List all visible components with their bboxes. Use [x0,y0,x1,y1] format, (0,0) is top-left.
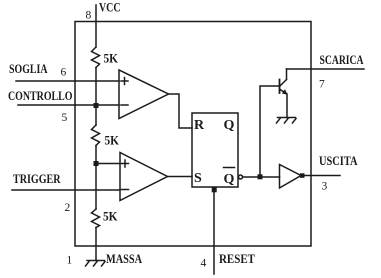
op-amp comparator U1 [119,70,169,119]
IC package boundary box [75,22,311,247]
junction node divider to comparator2 plus [94,161,99,166]
svg-text:8: 8 [86,10,92,22]
svg-text:SOGLIA: SOGLIA [9,62,48,76]
svg-text:5: 5 [62,112,68,124]
svg-text:SCARICA: SCARICA [320,53,364,67]
svg-text:MASSA: MASSA [106,252,142,266]
op-amp comparator U2 [120,153,168,201]
svg-text:4: 4 [201,258,207,270]
svg-text:USCITA: USCITA [319,154,358,168]
wire SOGLIA pin 6 to comparator1 plus input [16,80,119,82]
svg-text:S: S [194,171,202,186]
svg-text:7: 7 [319,79,325,91]
wire CONTROLLO pin 5 to comparator1 minus input [18,104,119,106]
wire R1 to R2 [95,68,97,126]
wire comparator1 output to flip-flop R input [169,94,193,128]
wire R2 to R3 [95,146,97,210]
svg-text:6: 6 [61,67,67,79]
junction node flip-flop reset [212,187,217,192]
svg-text:5K: 5K [103,210,118,224]
wire TRIGGER pin 2 to comparator2 minus input [12,189,120,191]
svg-text:VCC: VCC [99,1,121,15]
svg-text:Q: Q [224,118,235,133]
svg-text:3: 3 [322,181,328,193]
wire RESET pin 4 vertical [213,189,215,274]
resistor R2 5K zigzag [92,125,100,146]
svg-text:5K: 5K [104,52,119,66]
svg-text:1: 1 [67,255,73,267]
svg-text:CONTROLLO: CONTROLLO [8,89,73,103]
flip-flop U3 box [192,113,238,187]
ground symbol transistor emitter [277,118,297,124]
wire junction up to transistor base [260,86,280,177]
svg-text:RESET: RESET [219,252,256,266]
Q-bar output bubble [239,175,243,179]
svg-text:Q: Q [224,172,235,187]
resistor R3 5K zigzag [92,209,100,228]
svg-text:2: 2 [65,202,71,214]
wire divider node to comparator2 plus input [96,163,120,165]
flip-flop pin label Q-bar [224,168,235,188]
svg-text:R: R [194,118,205,133]
wire USCITA pin 3 output line [304,175,340,177]
resistor R1 5K zigzag [92,47,100,68]
transistor Q1 discharge [280,69,288,118]
svg-text:5K: 5K [105,134,120,148]
junction node inverter output [300,173,305,178]
wire R3 to ground [95,228,97,261]
ground symbol MASSA [86,261,106,267]
svg-text:TRIGGER: TRIGGER [13,172,61,186]
junction node CONTROLLO to divider [94,103,99,108]
inverter output buffer U4 [280,165,302,189]
wire Q-bar output to inverter input [243,176,280,178]
junction node Q-bar to transistor base [258,174,263,179]
wire VCC pin 8 vertical stub [95,5,97,47]
wire comparator2 output to flip-flop S input [168,176,193,178]
wire SCARICA pin 7 collector line [287,68,365,70]
